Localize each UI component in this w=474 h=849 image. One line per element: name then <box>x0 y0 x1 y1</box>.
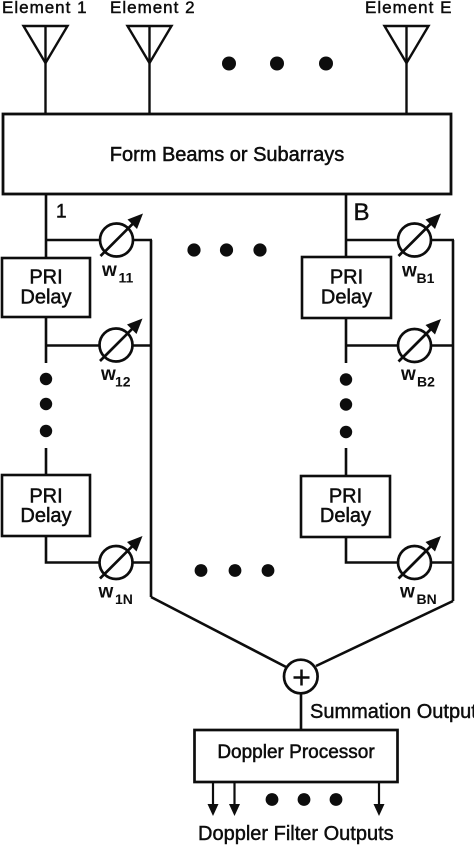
wire beam output 1 <box>45 194 48 258</box>
svg-text:12: 12 <box>115 374 131 390</box>
svg-text:w: w <box>101 260 117 281</box>
wire stub above PRI delay 2 <box>45 448 48 475</box>
right summing bus <box>452 240 455 601</box>
svg-text:B1: B1 <box>417 270 435 286</box>
weight multiplier wB1 <box>398 214 441 257</box>
svg-text:Element 1: Element 1 <box>2 0 88 17</box>
svg-text:11: 11 <box>119 270 134 286</box>
label Summation Output <box>310 701 474 723</box>
wire below PRI delay B1 <box>345 318 348 363</box>
ellipsis column B <box>340 373 352 438</box>
ellipsis middle lower <box>195 564 275 577</box>
label Element 1 <box>2 0 88 17</box>
svg-text:Delay: Delay <box>20 505 71 527</box>
wire w11 to left bus <box>133 239 152 242</box>
block PRI Delay (column 1, first) <box>2 258 90 317</box>
svg-text:w: w <box>400 364 416 385</box>
antenna Element 2 <box>128 26 172 114</box>
svg-text:Summation Output: Summation Output <box>310 701 474 723</box>
label w1N <box>98 582 133 608</box>
block PRI Delay (column 1, second) <box>2 475 90 536</box>
wire right bus to summer <box>316 601 453 666</box>
wire w12 to left bus <box>133 344 153 347</box>
svg-text:Doppler Processor: Doppler Processor <box>217 742 375 763</box>
weight multiplier w1N <box>100 536 143 579</box>
svg-text:BN: BN <box>417 591 437 607</box>
antenna Element E <box>385 26 429 114</box>
weight multiplier w11 <box>100 214 143 257</box>
wire tap to wB1 <box>346 239 398 242</box>
svg-text:PRI: PRI <box>330 267 363 289</box>
wire wB2 to right bus <box>431 344 454 347</box>
svg-text:Form Beams or Subarrays: Form Beams or Subarrays <box>110 144 345 166</box>
wire left bus to summer <box>151 597 288 668</box>
node label 1 <box>56 202 67 223</box>
wire tap to w11 <box>46 239 100 242</box>
node label B <box>354 199 370 226</box>
ellipsis outputs <box>266 793 343 806</box>
wire w1N to left bus <box>133 561 153 564</box>
ellipsis between antennas <box>222 57 333 71</box>
label wBN <box>399 582 437 608</box>
left summing bus <box>150 240 153 597</box>
weight multiplier wBN <box>398 536 441 579</box>
block Form Beams or Subarrays <box>3 114 451 194</box>
svg-text:B2: B2 <box>417 374 435 390</box>
label w11 <box>101 260 134 286</box>
svg-text:Delay: Delay <box>320 505 371 527</box>
wire tap to w12 <box>46 344 100 347</box>
wire tap to wB2 <box>346 344 398 347</box>
svg-text:w: w <box>399 582 415 603</box>
svg-text:w: w <box>98 582 114 603</box>
label w12 <box>100 364 131 390</box>
antenna Element 1 <box>24 26 68 114</box>
svg-text:w: w <box>401 261 417 282</box>
svg-text:1: 1 <box>56 202 67 223</box>
block PRI Delay (column B, first) <box>302 257 391 318</box>
label wB2 <box>400 364 435 390</box>
svg-text:Delay: Delay <box>20 287 71 309</box>
svg-text:1N: 1N <box>115 591 133 607</box>
wire beam output B <box>345 194 348 257</box>
weight multiplier wB2 <box>398 319 441 362</box>
svg-text:Element 2: Element 2 <box>110 0 196 17</box>
svg-text:PRI: PRI <box>29 267 62 289</box>
wire wBN to right bus <box>431 561 454 564</box>
wire below PRI delay B2 to wBN <box>346 537 398 563</box>
svg-text:Delay: Delay <box>321 287 372 309</box>
svg-text:Doppler Filter Outputs: Doppler Filter Outputs <box>198 823 394 845</box>
output arrow N <box>374 782 385 816</box>
block Doppler Processor <box>195 730 398 782</box>
svg-text:Element E: Element E <box>365 0 452 17</box>
label Element E <box>365 0 452 17</box>
label Doppler Filter Outputs <box>198 823 394 845</box>
ellipsis column 1 <box>40 373 52 437</box>
label wB1 <box>401 261 435 287</box>
wire stub above PRI delay B2 <box>345 448 348 476</box>
svg-text:w: w <box>100 364 116 385</box>
label Element 2 <box>110 0 196 17</box>
svg-text:B: B <box>354 199 370 226</box>
output arrow 2 <box>229 782 240 816</box>
weight multiplier w12 <box>100 319 143 362</box>
wire below PRI delay 1 <box>45 317 48 363</box>
wire below PRI delay 2 to w1N <box>46 536 100 563</box>
output arrow 1 <box>208 782 219 816</box>
ellipsis middle upper <box>187 243 266 256</box>
wire summer to doppler processor <box>300 694 303 731</box>
block PRI Delay (column B, second) <box>301 476 390 537</box>
wire wB1 to right bus <box>431 239 454 242</box>
summer node <box>284 660 318 694</box>
